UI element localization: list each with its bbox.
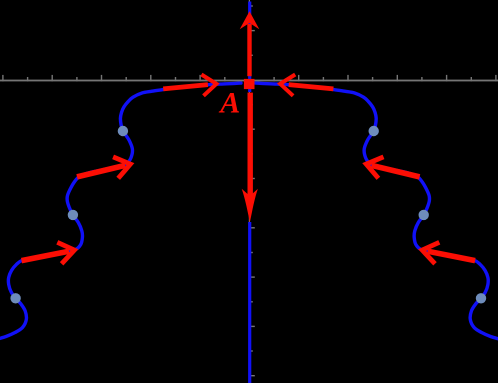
flow arrow right on axis (mirror) — [280, 75, 333, 96]
down arrow shaft — [248, 93, 253, 198]
dot left 2 (middle) — [68, 210, 78, 220]
flow arrow right lower (mirror) — [422, 242, 475, 263]
trajectory left curve — [0, 83, 241, 340]
dot right 3 (bottom) — [476, 293, 486, 303]
flow arrow left lower — [22, 251, 70, 260]
up arrow head — [240, 11, 260, 29]
vertical trajectory line on y-axis — [248, 2, 251, 93]
y-axis ticks — [249, 5, 253, 6]
x-axis ticks — [2, 75, 3, 82]
y-axis line — [249, 0, 250, 383]
dot right 2 (middle) — [419, 210, 429, 220]
flow arrow left on axis — [163, 85, 208, 89]
equilibrium point square A — [244, 79, 255, 89]
flow arrow left middle — [77, 165, 125, 177]
x-axis line — [0, 80, 498, 82]
trajectory right curve (mirror) — [256, 83, 498, 340]
dot right 1 (top) — [369, 126, 379, 136]
svg-text:A: A — [218, 87, 240, 120]
up arrow shaft — [247, 24, 251, 76]
dot left 1 (top) — [118, 126, 128, 136]
down arrow head — [242, 189, 258, 223]
flow arrow right middle (mirror) — [366, 157, 419, 178]
dot left 3 (bottom) — [10, 293, 20, 303]
